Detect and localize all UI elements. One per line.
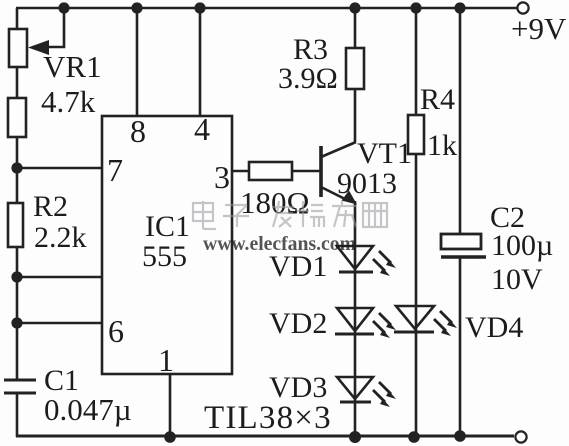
wire C2 branch top: [459, 8, 462, 234]
svg-text:2.2k: 2.2k: [34, 221, 87, 254]
transistor Q1 VT1: [321, 142, 357, 205]
svg-text:R4: R4: [420, 83, 455, 116]
svg-text:www.elecfans.com: www.elecfans.com: [203, 233, 356, 255]
svg-text:VD4: VD4: [465, 311, 523, 344]
wire emitter LED chain: [354, 201, 357, 437]
wire pin4: [199, 8, 202, 116]
resistor 180ohm: [249, 162, 292, 180]
wire C2 branch bottom: [459, 258, 462, 437]
svg-text:1: 1: [158, 342, 174, 378]
svg-text:100µ: 100µ: [491, 229, 553, 262]
LED VD3: [337, 377, 396, 407]
svg-text:10V: 10V: [491, 263, 543, 296]
svg-text:TIL38×3: TIL38×3: [204, 400, 332, 436]
node R4 rail junction: [410, 2, 421, 13]
svg-text:8: 8: [130, 113, 146, 149]
node pin1 ground junction: [164, 431, 176, 443]
wire bottom ground rail: [16, 435, 514, 438]
svg-text:4.7k: 4.7k: [41, 84, 96, 119]
potentiometer VR1 element: [9, 29, 27, 67]
LED VD2: [335, 308, 396, 338]
svg-text:VR1: VR1: [43, 49, 102, 84]
wire pin8: [136, 8, 139, 116]
svg-text:3.9Ω: 3.9Ω: [278, 62, 338, 95]
svg-text:0.047µ: 0.047µ: [44, 392, 132, 427]
wire resistor to base: [292, 170, 321, 173]
svg-text:9013: 9013: [337, 167, 397, 200]
svg-text:VT1: VT1: [357, 137, 412, 170]
terminal +9V: [517, 2, 528, 13]
svg-text:4: 4: [194, 111, 210, 147]
capacitor C2: [441, 234, 486, 257]
wire pin2: [17, 276, 103, 279]
wire pin3 to resistor: [232, 170, 252, 173]
node LED chain ground junction: [349, 431, 361, 443]
LED VD4: [394, 306, 457, 336]
svg-text:VD2: VD2: [269, 307, 327, 340]
node pin6 junction: [11, 317, 22, 328]
node R3 rail junction: [349, 2, 360, 13]
svg-text:R2: R2: [33, 190, 68, 223]
node C2 rail junction: [454, 2, 465, 13]
svg-text:6: 6: [108, 313, 124, 349]
wire top +9V rail: [16, 7, 517, 10]
wire pin6: [17, 322, 103, 325]
wire R3 branch: [354, 8, 357, 142]
resistor R4: [408, 115, 424, 154]
node pin8 rail junction: [131, 2, 142, 13]
node VD4 ground junction: [408, 431, 420, 443]
wire pin1: [169, 374, 172, 437]
wire VR1 wiper: [44, 8, 64, 47]
node pin2 junction: [11, 271, 22, 282]
wire left column below C1: [16, 393, 19, 437]
LED VD1: [337, 246, 396, 276]
node pin7 junction: [11, 162, 22, 173]
wire R4 branch: [415, 8, 418, 437]
svg-text:3: 3: [214, 159, 230, 195]
node C2 ground junction: [454, 430, 466, 442]
resistor R2: [8, 203, 23, 247]
op-amp U1 IC1 555 box: [102, 116, 232, 374]
watermark chinese characters: [193, 201, 387, 229]
resistor VR1 lower element: [8, 98, 26, 137]
svg-text:555: 555: [142, 240, 187, 273]
svg-text:180Ω: 180Ω: [240, 185, 310, 220]
wire pin7: [17, 167, 103, 170]
node top rail junction wiper: [58, 2, 69, 13]
wire left column: [16, 8, 19, 380]
svg-text:7: 7: [107, 152, 123, 188]
terminal bottom: [515, 431, 526, 442]
resistor R3: [346, 48, 364, 89]
svg-text:+9V: +9V: [511, 11, 567, 46]
VR1 wiper arrowhead: [28, 40, 49, 55]
svg-text:IC1: IC1: [145, 210, 190, 243]
capacitor C1: [4, 380, 36, 393]
node pin4 rail junction: [194, 2, 205, 13]
svg-text:1k: 1k: [427, 129, 457, 162]
